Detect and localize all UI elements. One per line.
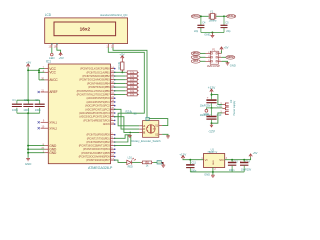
encoder pins A C B S1 S2 [139,124,162,136]
svg-text:GND: GND [230,63,236,67]
wire IC1 PD1 tie to gnd [114,135,131,139]
wire U1 GND pin down [212,168,214,176]
svg-text:100n: 100n [23,108,29,112]
junction [27,69,29,71]
svg-text:S2A: S2A [125,110,132,114]
svg-text:(PCINT23/AIN1)PD7: (PCINT23/AIN1)PD7 [86,158,110,162]
junction [211,107,213,109]
ground GND (LED) [161,164,165,166]
wire +5V rail down [27,67,29,100]
supply +5V (LCD backlight) [59,53,62,55]
junction [121,71,123,73]
svg-text:(PCINT14/RESET)PC6: (PCINT14/RESET)PC6 [83,118,110,122]
svg-text:R9 10k: R9 10k [118,61,121,69]
svg-text:AREF: AREF [49,90,57,94]
wire encoder S2 to ground [162,134,168,135]
svg-text:(PCINT5/SCK)PB5: (PCINT5/SCK)PB5 [88,85,110,89]
wire IC1 pin to R6 [114,90,126,92]
svg-text:-12V: -12V [208,129,216,133]
svg-text:100n: 100n [12,108,18,112]
wire mid node to X2 pin2 [212,107,223,109]
wire -12V node to X2 pin3 [212,113,223,123]
junction [200,15,202,17]
junction [211,94,213,96]
wire header pin4 to MOSI [222,56,227,58]
svg-text:standard16x2lcd_QC: standard16x2lcd_QC [100,13,128,17]
wire crystal caps bottom rail [201,32,224,34]
junction [211,32,213,34]
svg-text:MOSI: MOSI [227,56,233,59]
capacitor C5 22p [223,16,225,25]
wire [200,15,208,17]
svg-text:(PCINT16/RXD)PD0: (PCINT16/RXD)PD0 [86,133,110,137]
IC1 right pins PB0-PB7 PC0-PC6 ADC6 [77,66,116,126]
resistor R1 10k [126,71,139,73]
resistor R7 10k [126,94,139,96]
net label SCK [191,56,200,60]
IC1 left pins VCC/AVCC/AREF/GND [41,66,58,155]
wire IC1 PC3 pin to encoder B [114,117,139,133]
wire IC1 PD7 pin to LED [114,160,126,162]
resistor R4 10k [126,82,139,84]
net label XTAL1 (crystal) [191,14,200,18]
svg-text:100n: 100n [229,169,235,172]
svg-text:16MHz: 16MHz [209,19,218,22]
wire cap bottom rail [17,112,40,114]
svg-text:(PCINT20/XCK/T0)PD4: (PCINT20/XCK/T0)PD4 [83,147,110,151]
wire IC1 PC1 pin to encoder C [114,109,139,129]
svg-text:ADC6: ADC6 [103,122,110,126]
svg-text:XTAL1: XTAL1 [192,14,200,18]
resistor R8 1k [141,161,153,163]
wire IC1 pin to R1 [114,71,126,73]
ground GND (encoder B) [129,132,131,133]
svg-text:RED: RED [128,166,133,169]
svg-text:(PCINT6/XTAL1/TOSC1)PB6: (PCINT6/XTAL1/TOSC1)PB6 [77,89,111,93]
encoder rotor circle [147,125,155,133]
junction [212,171,214,173]
wire cap top rail [17,99,40,101]
wire MISO to header [200,52,205,54]
wire +12V to VI [183,158,204,161]
net label MISO [191,52,200,56]
encoder top pin square [146,117,149,120]
junction [243,159,245,161]
svg-text:GND: GND [204,173,210,177]
wire LED to R8 [132,161,141,163]
LCD module DIS1 16x2 [45,13,128,44]
svg-text:C1: C1 [12,98,16,102]
svg-text:(PCINT22/OC0A/AIN0)PD6: (PCINT22/OC0A/AIN0)PD6 [79,155,111,159]
svg-text:XTAL1: XTAL1 [49,120,57,124]
svg-text:XTAL2: XTAL2 [227,14,235,18]
svg-text:P1: P1 [212,47,216,51]
net label RST [191,60,200,64]
ground GND (IC1) [26,158,30,160]
wire IC1 pin to R4 [114,82,126,84]
svg-text:XTAL2: XTAL2 [49,126,57,130]
wire [211,93,213,96]
svg-text:GND: GND [204,33,210,37]
svg-text:22p: 22p [194,30,199,33]
wire [216,15,224,17]
wire LCD pin16 to +5V [57,47,61,53]
pin XTAL2 (IC1) [41,127,49,129]
wire +12V to X2 pin1 [212,95,223,105]
microcontroller IC1 ATMEGA328-P [48,64,110,164]
wire branch to VCC pins [28,69,39,71]
wire LCD pin1 to encoder A (net) [108,47,144,125]
svg-text:VCC: VCC [49,71,56,75]
svg-text:AVR-ICSP: AVR-ICSP [207,64,220,68]
svg-text:(ADC4/SDA/PCINT12)PC4: (ADC4/SDA/PCINT12)PC4 [79,111,110,115]
svg-text:(PCINT18/INT0)PD2: (PCINT18/INT0)PD2 [86,140,110,144]
pin XTAL1 (IC1) [41,121,49,123]
svg-text:10uF/25V: 10uF/25V [241,169,252,172]
supply -12V [211,124,213,127]
svg-text:10uF/25V: 10uF/25V [200,104,211,108]
svg-text:GND: GND [213,160,215,165]
svg-text:(PCINT4/MISO)PB4: (PCINT4/MISO)PB4 [87,81,110,85]
ground GND (encoder S2) [166,135,170,137]
svg-text:LD1: LD1 [128,156,133,159]
junction [211,122,213,124]
resistor R9 10k vertical [121,59,123,62]
svg-text:16x2: 16x2 [80,27,91,32]
svg-text:(PCINT17/TXD)PD1: (PCINT17/TXD)PD1 [87,136,110,140]
junction [38,69,40,71]
svg-text:(ADC3/PCINT11)PC3: (ADC3/PCINT11)PC3 [85,107,110,111]
svg-text:VO: VO [219,158,224,162]
svg-text:GND: GND [25,162,31,166]
net label XTAL2 (crystal) [227,14,236,18]
capacitor C1 100n [16,100,18,104]
svg-text:22p: 22p [226,30,231,33]
junction [27,152,29,154]
wire IC1 PD2 tie to gnd [114,135,128,142]
ground GND (crystal) [211,33,213,36]
wire IC1 pin to R2 [114,75,126,77]
wire header pin2 to +5V [221,50,223,53]
resistor R5 10k [126,86,139,88]
wire VO to +5V [225,157,251,160]
svg-text:100n: 100n [35,108,41,112]
wire encoder S1 to LCD net [149,119,168,126]
svg-text:Rotary_Encoder_Switch: Rotary_Encoder_Switch [132,139,161,143]
gnd flag square [157,161,161,164]
wire IC1 pin to R5 [114,86,126,88]
svg-text:(PCINT0/CLKO/ICP1)PB0: (PCINT0/CLKO/ICP1)PB0 [80,67,110,71]
svg-text:SCK: SCK [193,56,198,59]
svg-text:+5V: +5V [253,151,258,155]
svg-text:C2: C2 [24,98,28,102]
svg-text:MISO: MISO [193,52,199,55]
svg-text:Y1: Y1 [210,9,214,13]
wire LCD pin15 to LED node [51,47,53,53]
svg-text:(ADC5/SCL/PCINT13)PC5: (ADC5/SCL/PCINT13)PC5 [79,115,110,119]
svg-text:90: 90 [134,111,138,115]
svg-text:(PCINT7/XTAL2/TOSC2)PB7: (PCINT7/XTAL2/TOSC2)PB7 [77,93,111,97]
supply +5V (ISP) [220,47,223,49]
no-connect X on AREF [41,91,45,93]
wire branches to GND pins [28,145,44,147]
junction [27,145,29,147]
svg-text:(PCINT2/SS/OC1B)PB2: (PCINT2/SS/OC1B)PB2 [82,74,110,78]
svg-text:ATMEGA328-P: ATMEGA328-P [88,166,113,170]
node GND (circle) [206,108,211,109]
wire R8 to gnd flag [153,161,157,163]
resistor R3 10k [126,79,139,81]
svg-text:IC1: IC1 [46,60,51,64]
capacitor C3 100n [39,100,41,104]
svg-text:VI: VI [205,158,208,162]
wire regulator ground rail [190,171,244,173]
wire header pin6 to ground [222,61,228,62]
resistor R6 10k [126,90,139,92]
ground GND (ISP) [226,62,230,64]
svg-text:(ADC1/PCINT9)PC1: (ADC1/PCINT9)PC1 [86,100,110,104]
IC1 right pins PD0-PD7 [79,132,116,162]
ground GND (regulator) [211,174,215,176]
junction [231,159,233,161]
resistor R2 10k [126,75,139,77]
svg-text:(ADC0/PCINT8)PC0: (ADC0/PCINT8)PC0 [86,96,110,100]
svg-text:Power supply: Power supply [233,100,236,116]
connector X2 power supply [220,103,228,114]
capacitor C2 100n [27,100,29,104]
svg-text:+5V: +5V [59,56,64,60]
svg-text:AVCC: AVCC [49,78,58,82]
svg-text:+5V: +5V [224,46,229,50]
wire IC1 pin to R7 [114,94,126,96]
net label MOSI [226,56,235,60]
svg-text:B: B [143,131,145,135]
wire IC1 PD3 tie to gnd [114,135,131,146]
wire GND rail down [27,113,29,158]
junction [27,99,29,101]
junction [27,148,29,150]
svg-text:(PCINT3/OC2A/MOSI)PB3: (PCINT3/OC2A/MOSI)PB3 [79,78,110,82]
svg-text:(PCINT1/OC1A)PB1: (PCINT1/OC1A)PB1 [86,70,110,74]
svg-text:(PCINT19/OC2B/INT1)PD3: (PCINT19/OC2B/INT1)PD3 [79,144,111,148]
svg-text:(ADC2/PCINT10)PC2: (ADC2/PCINT10)PC2 [85,104,110,108]
svg-text:LCD: LCD [45,13,52,17]
svg-text:(PCINT21/OC0B/T1)PD5: (PCINT21/OC0B/T1)PD5 [81,151,110,155]
svg-text:+: + [207,95,209,99]
svg-text:RST: RST [193,60,198,63]
wire SCK to header [200,56,205,58]
svg-text:+5V: +5V [26,61,31,65]
svg-text:C3: C3 [35,98,39,102]
wire RST to header [200,60,205,62]
junction [129,132,131,134]
junction [27,112,29,114]
LCD pins 15,16,1,2 [49,42,115,48]
supply +5V (regulator output) [249,154,252,156]
junction [223,15,225,17]
node LED (open circle) [51,53,54,56]
junction [189,159,191,161]
wire IC1 pin to R3 [114,79,126,81]
svg-text:GND: GND [49,151,57,155]
junction [38,71,40,73]
capacitor C4 22p [200,16,202,25]
wire LCD pin2 to encoder top (net) [113,47,147,117]
